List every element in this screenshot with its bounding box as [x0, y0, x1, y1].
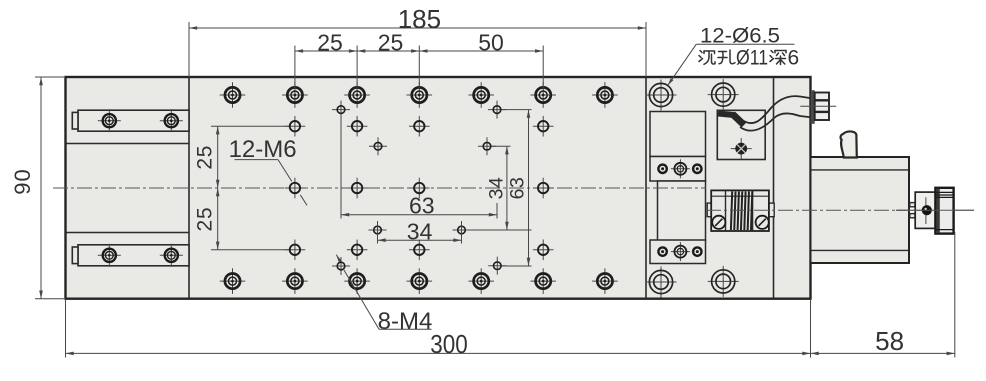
svg-text:58: 58	[875, 326, 904, 356]
svg-text:12-M6: 12-M6	[229, 136, 297, 163]
svg-text:34: 34	[486, 177, 508, 200]
svg-text:63: 63	[507, 177, 529, 200]
svg-text:300: 300	[430, 329, 468, 359]
svg-text:Ø11: Ø11	[736, 47, 768, 70]
svg-text:8-M4: 8-M4	[378, 308, 433, 335]
svg-text:6: 6	[788, 47, 800, 70]
svg-text:25: 25	[194, 207, 217, 232]
svg-text:63: 63	[409, 192, 435, 218]
svg-text:90: 90	[10, 168, 35, 194]
svg-text:185: 185	[398, 4, 441, 34]
svg-text:25: 25	[378, 29, 404, 55]
svg-text:25: 25	[317, 29, 343, 55]
svg-text:12-Ø6.5: 12-Ø6.5	[700, 25, 780, 48]
svg-text:50: 50	[478, 29, 504, 55]
svg-text:25: 25	[194, 145, 217, 170]
svg-text:34: 34	[407, 219, 433, 245]
